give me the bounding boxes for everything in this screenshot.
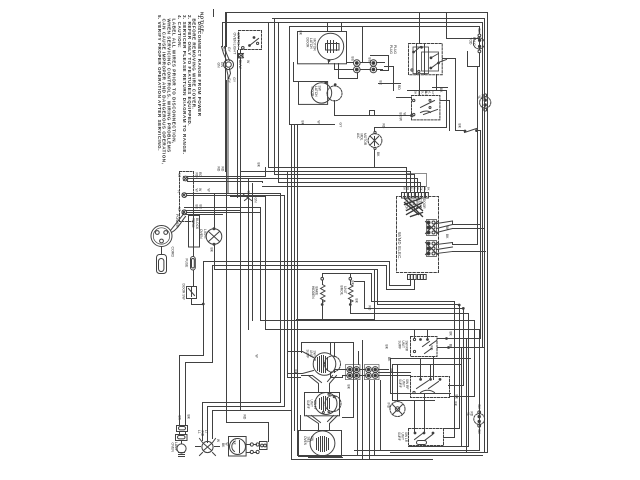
wire top-left drop to loop (223, 13, 227, 47)
oven lamp bulb (177, 444, 186, 453)
bake element (323, 274, 372, 278)
svg-text:LAMP: LAMP (174, 442, 178, 452)
svg-text:GY: GY (339, 123, 343, 129)
door latch motor box (298, 32, 347, 64)
svg-text:BK/W: BK/W (238, 60, 242, 69)
svg-text:TOD: TOD (469, 38, 473, 46)
svg-text:5. VERIFY PROPER OPERATION AFT: 5. VERIFY PROPER OPERATION AFTER SERVICI… (157, 15, 162, 151)
staircase bus to bottom right (372, 274, 455, 438)
relay box dashed (409, 44, 443, 75)
wire bus risers (261, 168, 266, 213)
svg-text:GN: GN (254, 198, 258, 204)
svg-text:IND: IND (201, 431, 205, 437)
svg-text:SWITCH: SWITCH (237, 33, 241, 48)
bottom bus lines (409, 446, 469, 448)
svg-text:BAKE: BAKE (315, 287, 319, 297)
svg-text:MDL: MDL (360, 134, 364, 141)
oven light lamp (214, 194, 216, 229)
wire ERC strip pins to P runs (390, 262, 411, 286)
svg-text:SW: SW (310, 436, 314, 441)
right mid verticals (354, 341, 363, 460)
oven light switch contacts (242, 37, 259, 50)
bottom right section feed lines (391, 358, 471, 360)
svg-text:LATCH: LATCH (314, 86, 318, 97)
vbus middle (288, 172, 301, 378)
terminal N (182, 193, 187, 198)
infinite switch 1 dashed (411, 377, 450, 398)
svg-text:LATCH: LATCH (309, 38, 313, 49)
svg-text:DOOR: DOOR (306, 38, 310, 49)
wires box3 in from bus (415, 330, 428, 339)
wire branch x274 (274, 19, 276, 175)
svg-text:OVEN: OVEN (199, 229, 203, 239)
ground splice (244, 195, 252, 201)
svg-text:A/C: A/C (356, 133, 360, 139)
svg-text:DOOR: DOOR (311, 87, 315, 98)
svg-text:BROIL: BROIL (340, 286, 344, 296)
svg-text:POWER: POWER (175, 214, 179, 228)
wire branch x279 (278, 23, 280, 183)
wire latch motor to connector (335, 63, 354, 70)
svg-text:LIGHT: LIGHT (203, 229, 207, 239)
svg-text:RD: RD (195, 173, 199, 178)
svg-text:BU: BU (368, 58, 372, 63)
svg-text:RD: RD (368, 306, 372, 311)
svg-text:SW RR: SW RR (405, 341, 409, 352)
strip pin labels (403, 186, 431, 191)
door latch switch box (299, 82, 328, 105)
svg-text:RD: RD (470, 412, 474, 417)
svg-text:CLK: CLK (233, 439, 237, 446)
wire second top line L2 (273, 19, 485, 453)
svg-text:W: W (416, 187, 420, 190)
svg-text:RD: RD (430, 346, 434, 351)
svg-text:GY: GY (420, 187, 424, 191)
surface connector cluster B (365, 365, 380, 380)
terminal L2 (182, 210, 187, 215)
svg-text:BK: BK (426, 187, 430, 191)
label BK/W (238, 60, 250, 69)
surface section bottom circle (299, 431, 342, 457)
broil element (349, 277, 352, 280)
svg-text:SURF: SURF (398, 341, 402, 350)
wire clusters to right (453, 225, 486, 252)
connector pair B (370, 60, 377, 67)
svg-text:SURF: SURF (397, 432, 401, 441)
label OVEN LIGHT SWITCH (233, 33, 241, 56)
svg-text:GN: GN (247, 191, 251, 197)
svg-text:BK: BK (414, 91, 418, 95)
wire P2 run (186, 266, 387, 417)
surface switch RR dashed box (411, 337, 438, 357)
wires around probe box (379, 84, 448, 98)
notes text block (157, 12, 205, 164)
cord strain relief (157, 255, 167, 274)
svg-text:PLUG: PLUG (389, 45, 393, 54)
wire third top line N (223, 23, 483, 348)
ERC dense text (405, 199, 427, 211)
svg-text:SURF: SURF (306, 400, 310, 409)
svg-text:GY: GY (227, 47, 231, 53)
wire connector out (377, 63, 385, 70)
door lock section box (290, 27, 479, 125)
surface section top circle (302, 343, 354, 381)
svg-text:BLOCK: BLOCK (195, 218, 199, 230)
wire latch bottom jumper (339, 64, 358, 79)
wire long verticals left bundle (227, 81, 229, 194)
svg-text:SW LF: SW LF (313, 400, 317, 410)
svg-text:OVEN LIGHT: OVEN LIGHT (233, 33, 237, 56)
door latch switch (311, 83, 331, 103)
oven light switch box (dashed) (239, 31, 262, 50)
terminal block (dashed) (180, 172, 194, 222)
svg-text:L2: L2 (178, 208, 182, 212)
MDL motor (368, 134, 382, 148)
strip outline (407, 174, 427, 187)
probe jack dashed box (412, 96, 440, 120)
wire latch switch drop (334, 101, 336, 116)
wire loop harness (222, 47, 234, 81)
lower mid horizontals (203, 402, 281, 404)
labels RD W BK (195, 172, 203, 210)
svg-text:SURF: SURF (398, 379, 402, 388)
wire right vertical from TOD (477, 67, 479, 245)
svg-text:GY: GY (431, 91, 435, 95)
wire terminal L1 rows (188, 177, 418, 182)
svg-text:FUSE: FUSE (185, 259, 189, 269)
svg-text:GN: GN (220, 62, 224, 68)
svg-text:SW LR: SW LR (404, 432, 408, 443)
funnel neck upper (309, 376, 337, 393)
svg-text:HIDDEN: HIDDEN (311, 286, 315, 299)
terminal block body (189, 216, 200, 248)
fuse chain left (193, 196, 195, 257)
svg-text:MOTOR: MOTOR (313, 39, 317, 52)
door switch connector right dashed (480, 97, 491, 108)
svg-text:UNIT: UNIT (309, 350, 313, 357)
wire MDL (375, 128, 447, 132)
svg-text:BK: BK (210, 248, 214, 253)
relay contacts (413, 47, 429, 74)
svg-text:OVEN: OVEN (303, 436, 307, 446)
indicator cluster (197, 430, 208, 437)
svg-text:RD: RD (243, 415, 247, 420)
pilot lamp dashed (390, 402, 405, 417)
ERC outline dashed (397, 197, 439, 273)
svg-text:RD: RD (221, 167, 225, 172)
svg-text:RD: RD (417, 91, 421, 95)
svg-text:PLUG: PLUG (393, 45, 397, 54)
svg-text:UNIT: UNIT (401, 341, 405, 348)
svg-text:LT: LT (204, 430, 208, 434)
svg-text:OVEN: OVEN (171, 443, 175, 453)
svg-text:GY: GY (232, 77, 236, 83)
svg-text:BK: BK (187, 415, 191, 420)
svg-text:SURF: SURF (306, 350, 310, 359)
svg-text:L1: L1 (197, 430, 201, 434)
svg-text:UNIT: UNIT (343, 286, 347, 294)
thermal switch top right (456, 129, 481, 133)
ERC connector cluster upper (426, 220, 453, 236)
svg-text:SW: SW (318, 86, 322, 92)
svg-text:GN: GN (217, 63, 221, 69)
wires into switch1 (421, 357, 434, 380)
svg-text:BK/W: BK/W (399, 113, 403, 122)
connector housing (371, 56, 389, 71)
svg-text:BU: BU (409, 187, 413, 191)
wires into switch2 (415, 394, 425, 433)
power cord (151, 226, 172, 247)
oven lamp chain bottom (178, 415, 191, 421)
svg-text:RD: RD (382, 124, 386, 129)
terminal labels (177, 174, 182, 212)
svg-text:1. DISCONNECT RANGE FROM POWER: 1. DISCONNECT RANGE FROM POWER (197, 15, 202, 117)
ERC bottom strip (408, 275, 427, 280)
TOD connector dashed (473, 38, 484, 49)
svg-text:DOOR SW: DOOR SW (182, 284, 186, 301)
svg-text:BU: BU (351, 57, 355, 62)
svg-text:PLUG: PLUG (472, 37, 476, 46)
clock motor (229, 437, 247, 457)
svg-text:4. CAUTION:: 4. CAUTION: (177, 15, 182, 48)
cluster pins down (370, 381, 381, 460)
wire switch drops (240, 51, 242, 411)
svg-text:UNIT: UNIT (401, 433, 405, 440)
svg-text:UNIT: UNIT (310, 400, 314, 407)
door latch motor (317, 33, 343, 59)
svg-text:RD: RD (397, 85, 401, 90)
surface connector cluster A (346, 365, 361, 380)
svg-text:BK: BK (403, 187, 407, 191)
page corner tick (213, 10, 215, 17)
svg-text:IND: IND (387, 403, 391, 409)
wire terminal N rows (187, 194, 285, 196)
svg-text:SW RF: SW RF (405, 379, 409, 389)
ERC connector strip (402, 193, 429, 199)
svg-text:MOTOR: MOTOR (363, 133, 367, 146)
label POWER CORD (171, 214, 180, 257)
svg-text:SW RR: SW RR (313, 351, 317, 362)
svg-text:SEL: SEL (307, 437, 311, 443)
svg-text:L1: L1 (178, 174, 182, 178)
small comp bottom left mid (260, 442, 268, 450)
wire branch down from N (268, 23, 270, 168)
surface section mid circle (305, 393, 340, 416)
infinite switch 2 dashed (409, 429, 444, 446)
clock terminals (250, 443, 253, 446)
svg-text:W/MD ELEC.: W/MD ELEC. (397, 232, 402, 260)
wires box3 out right (438, 339, 481, 453)
terminal L1 (183, 176, 188, 181)
wire latch feeds from top (328, 23, 363, 63)
svg-text:YL: YL (466, 412, 470, 416)
main hbus (269, 168, 407, 193)
scattered wire labels (207, 31, 459, 420)
svg-text:BU: BU (424, 90, 428, 95)
funnel neck (307, 416, 338, 431)
bake broil box (297, 270, 375, 320)
connector small box under switch (239, 54, 243, 58)
connector pair A (354, 60, 361, 67)
wire between connectors (361, 63, 371, 70)
svg-text:YL: YL (413, 186, 417, 190)
wire top border L1 (227, 12, 488, 14)
svg-text:RD: RD (217, 167, 221, 172)
wire P1 run (180, 262, 390, 417)
label GY GY (217, 47, 236, 84)
svg-text:CORD: CORD (171, 247, 175, 258)
svg-text:UNIT: UNIT (402, 380, 406, 387)
cluster wires (331, 370, 347, 378)
ERC connector cluster lower (426, 241, 453, 257)
svg-text:DOOR: DOOR (422, 199, 426, 209)
wire terminal L2 rows (187, 211, 261, 215)
svg-text:YL: YL (477, 95, 481, 99)
svg-text:BU: BU (421, 91, 425, 95)
connector right bottom dashed (474, 414, 485, 425)
svg-text:RD: RD (481, 95, 485, 100)
svg-text:W: W (225, 443, 229, 446)
wire right border (391, 13, 488, 453)
